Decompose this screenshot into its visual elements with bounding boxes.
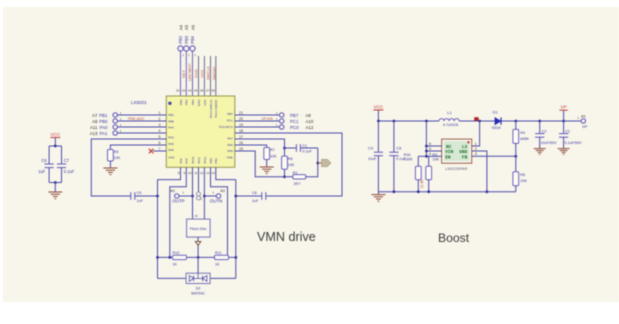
- wire U1 pin 9 down-left to R10 row: [170, 167, 187, 257]
- svg-text:22: 22: [176, 89, 180, 93]
- net label LED NEXT: [188, 62, 192, 81]
- connector pin PB4 (A6): [190, 24, 196, 57]
- svg-text:A5: A5: [184, 24, 189, 30]
- ground below boost rail: [371, 192, 385, 202]
- wire U1 pin 15 to R1: [235, 151, 293, 177]
- svg-text:PA11: PA11: [197, 157, 201, 164]
- svg-text:SS34: SS34: [492, 126, 501, 130]
- svg-text:R5: R5: [520, 173, 525, 177]
- svg-text:12.4K: 12.4K: [420, 179, 424, 189]
- wire VCC stub to U1 pin 26: [203, 56, 205, 96]
- svg-text:R8: R8: [288, 157, 293, 161]
- net label SWDIO: [211, 67, 216, 80]
- wire D2 common cathode up: [197, 257, 199, 273]
- connector pin PA1 (A13): [90, 129, 122, 136]
- U1 top pin numbers 22-28: [176, 89, 215, 93]
- svg-text:VP: VP: [561, 105, 567, 110]
- wire U1 pin 10 to OUTP node and piezo: [191, 167, 194, 219]
- svg-text:A8: A8: [306, 113, 312, 118]
- svg-text:C1: C1: [302, 144, 307, 148]
- svg-text:1K: 1K: [173, 262, 178, 266]
- svg-text:VCC: VCC: [374, 104, 384, 109]
- svg-text:OUTN: OUTN: [210, 199, 223, 204]
- power port triangle on piezo bottom wire: [195, 242, 201, 246]
- svg-text:PA10: PA10: [191, 156, 195, 163]
- svg-text:A11: A11: [90, 125, 98, 130]
- wire U1 pin 6 to R6: [110, 145, 166, 150]
- svg-text:GND: GND: [197, 99, 201, 107]
- svg-text:C2: C2: [565, 130, 570, 134]
- svg-text:Boost: Boost: [438, 231, 470, 245]
- U1 bottom pin numbers 8-14: [178, 171, 215, 175]
- svg-text:PA6: PA6: [227, 143, 233, 147]
- svg-text:LX8201: LX8201: [131, 100, 147, 105]
- wire U1 pin 18 to C8 loop: [235, 133, 342, 196]
- wire U1 pin 17 to node A: [235, 139, 286, 149]
- svg-text:A2: A2: [170, 189, 175, 193]
- wire R16 R9 top join: [418, 155, 428, 166]
- svg-text:17: 17: [239, 135, 243, 139]
- capacitor C3 10uF/50V: [535, 121, 557, 149]
- svg-text:5: 5: [429, 147, 431, 151]
- svg-text:PA13-SWDIO: PA13-SWDIO: [214, 99, 218, 118]
- ground below C3: [534, 149, 546, 155]
- resistor R9 10K: [426, 153, 440, 192]
- wire U1 pin 12 to OUTN node and piezo: [203, 167, 206, 219]
- svg-text:10: 10: [188, 171, 192, 175]
- svg-text:PB7: PB7: [290, 113, 299, 118]
- svg-text:5: 5: [159, 135, 161, 139]
- resistor R6 10K: [108, 150, 121, 168]
- wire U1 pin 19 to PC0: [235, 126, 280, 128]
- svg-text:26: 26: [200, 89, 204, 93]
- ground below C2: [558, 149, 570, 155]
- U2 pin numbers: [429, 142, 477, 156]
- resistor R4 845K: [513, 121, 530, 156]
- svg-text:OUTP: OUTP: [172, 199, 185, 204]
- svg-text:PB1: PB1: [168, 113, 174, 117]
- svg-text:EN: EN: [445, 154, 451, 160]
- inductor L1 4.7uH/2A: [439, 110, 459, 127]
- svg-text:C4: C4: [368, 146, 374, 151]
- wire right rail of piezo block: [234, 180, 237, 279]
- svg-text:8: 8: [178, 171, 180, 175]
- svg-text:1: 1: [475, 142, 477, 146]
- svg-text:20K: 20K: [520, 179, 527, 183]
- svg-text:VMN drive: VMN drive: [257, 230, 316, 244]
- svg-text:VIN: VIN: [445, 149, 453, 155]
- svg-text:24: 24: [188, 89, 192, 93]
- svg-text:Piezo Disc: Piezo Disc: [190, 227, 207, 231]
- svg-text:PC1: PC1: [227, 118, 233, 122]
- svg-text:15: 15: [239, 147, 243, 151]
- svg-text:6: 6: [159, 141, 161, 145]
- svg-text:VCC: VCC: [50, 132, 60, 137]
- svg-text:25: 25: [194, 89, 198, 93]
- svg-text:PB2: PB2: [178, 35, 183, 44]
- svg-text:10K: 10K: [270, 155, 277, 159]
- svg-text:11: 11: [194, 171, 197, 175]
- svg-text:PRE-ADC: PRE-ADC: [128, 117, 145, 121]
- svg-text:VP-EN: VP-EN: [262, 117, 274, 121]
- svg-text:1uF: 1uF: [252, 199, 259, 203]
- svg-text:A4: A4: [178, 24, 183, 30]
- svg-text:SWDIO: SWDIO: [211, 67, 216, 80]
- svg-text:19: 19: [239, 123, 243, 127]
- wire PB3 to U1 pin 23: [185, 51, 187, 96]
- wire right rail to D2 anode 2: [210, 277, 236, 279]
- connector pin PA0 (A11): [90, 123, 122, 130]
- dual diode D2 BAT54C: [186, 273, 210, 295]
- svg-text:6: 6: [429, 142, 431, 146]
- svg-text:PB3: PB3: [214, 158, 218, 164]
- output port arrow VMN: [318, 159, 331, 166]
- capacitor C2 0.1uF/50V: [559, 121, 582, 149]
- wire PB1 to U1 pin 1: [117, 114, 166, 116]
- U2 designator LN2220PAR: [445, 166, 467, 171]
- svg-text:R11: R11: [215, 251, 222, 255]
- svg-text:PB3: PB3: [185, 99, 189, 105]
- svg-text:10K: 10K: [288, 163, 295, 167]
- svg-text:0.1uF: 0.1uF: [396, 157, 406, 161]
- svg-text:PA5: PA5: [227, 149, 233, 153]
- svg-text:PC0: PC0: [290, 125, 299, 130]
- no-ERC cross on U1 pin 7: [149, 149, 167, 154]
- wire GND stub to U1 pin 25: [198, 56, 200, 96]
- piezo disc transducer J3: [187, 214, 211, 237]
- wire PA0 to U1 pin 3: [117, 126, 166, 128]
- wire R1 to C1 node: [306, 148, 319, 177]
- svg-text:VDE: VDE: [227, 155, 233, 159]
- resistor R8 10K: [282, 148, 295, 178]
- capacitor C4 10uF: [368, 121, 383, 192]
- svg-text:PA7: PA7: [227, 137, 233, 141]
- wire PB4 to U1 pin 24: [192, 51, 194, 96]
- connector pin A1 VP output: [577, 113, 587, 128]
- svg-text:12: 12: [200, 171, 204, 175]
- capacitor C6 1uF: [38, 158, 54, 174]
- svg-text:PC0-MCO: PC0-MCO: [219, 125, 234, 129]
- svg-text:A12: A12: [306, 125, 314, 130]
- resistor R11 1K: [215, 251, 229, 266]
- svg-text:VDD: VDD: [203, 99, 207, 106]
- wire U1 pin 5 to C9: [91, 139, 166, 196]
- svg-text:J2: J2: [199, 197, 203, 201]
- svg-text:PB0: PB0: [99, 119, 108, 124]
- wire U1 pin 13 down-right to R11 row: [211, 167, 228, 257]
- MCU U1 LX8201 body: [166, 96, 235, 167]
- connector pin PB0 (A9): [92, 117, 122, 124]
- resistor R7 10K: [264, 148, 277, 167]
- svg-text:1K: 1K: [215, 262, 220, 266]
- svg-text:1uF: 1uF: [137, 199, 144, 203]
- net label GND: [193, 69, 198, 78]
- wire VCC split to C6 C7: [49, 145, 61, 164]
- error marker red square at L1 output: [474, 117, 478, 121]
- svg-text:2R7: 2R7: [294, 182, 301, 186]
- svg-text:0.1uF/50V: 0.1uF/50V: [565, 141, 583, 145]
- net label SWCLK: [205, 66, 210, 80]
- svg-text:PB4: PB4: [191, 99, 195, 105]
- svg-text:PA6: PA6: [168, 148, 174, 152]
- svg-text:PA0: PA0: [100, 125, 109, 130]
- svg-text:VP: VP: [582, 124, 588, 129]
- svg-text:9: 9: [184, 171, 186, 175]
- wire SWCLK stub to U1 pin 27: [210, 56, 212, 96]
- connector pin PB7 (A8): [276, 111, 312, 118]
- capacitor C7 0.1uF: [57, 158, 75, 174]
- svg-text:LN2220PAR: LN2220PAR: [445, 166, 467, 171]
- power port VCC (left): [50, 132, 61, 146]
- wire U2 FB pin 3 to divider: [472, 155, 517, 158]
- svg-text:10uF: 10uF: [368, 157, 377, 161]
- boost IC U2 LN2220PAR body: [442, 139, 472, 163]
- wire U1 pin 16 to R7: [235, 145, 267, 148]
- resistor R10 1K: [173, 251, 187, 266]
- svg-text:1uF: 1uF: [38, 169, 46, 174]
- wire SWDIO stub to U1 pin 28: [215, 56, 217, 96]
- capacitor C8 1uF: [236, 191, 266, 203]
- svg-text:PA9: PA9: [185, 158, 189, 164]
- ground below R6: [103, 168, 117, 175]
- svg-text:PA4: PA4: [168, 126, 174, 130]
- resistor R1 2R7: [293, 171, 306, 186]
- capacitor C9 1uF: [131, 191, 158, 203]
- svg-text:PA8: PA8: [179, 158, 183, 164]
- svg-text:BAT54C: BAT54C: [191, 292, 205, 296]
- svg-text:VSS: VSS: [168, 155, 174, 159]
- wire boost top rail: [377, 120, 581, 123]
- svg-text:LED NEXT: LED NEXT: [188, 62, 192, 81]
- capacitor C5 0.1uF: [389, 121, 406, 192]
- svg-text:7: 7: [159, 147, 161, 151]
- svg-text:PB3: PB3: [184, 35, 189, 44]
- svg-text:C9: C9: [137, 191, 142, 195]
- wire VIN riser and pin stubs: [425, 121, 442, 156]
- svg-text:R7: R7: [270, 148, 275, 152]
- svg-text:FB: FB: [462, 154, 468, 160]
- svg-text:L1: L1: [447, 110, 452, 115]
- section title VMN drive: [257, 230, 316, 244]
- resistor R16 100R: [404, 153, 421, 192]
- svg-text:1: 1: [159, 111, 161, 115]
- wire U1 pin 21 to PB7: [235, 114, 280, 116]
- svg-text:13: 13: [206, 171, 210, 175]
- wire PA1 to U1 pin 4: [117, 132, 166, 134]
- wire C6 C7 join to ground: [49, 168, 61, 192]
- svg-text:16: 16: [239, 141, 243, 145]
- svg-text:R6: R6: [114, 150, 119, 154]
- svg-text:PA12: PA12: [203, 156, 207, 163]
- jumper J2 on pin 11 wire: [197, 167, 203, 200]
- svg-text:A3: A3: [220, 189, 225, 193]
- note 12.4K rotated: [420, 179, 424, 189]
- net label VCC: [199, 69, 204, 78]
- svg-text:0.1uF: 0.1uF: [302, 150, 312, 154]
- power port VP: [559, 105, 567, 121]
- svg-text:PB7: PB7: [227, 112, 233, 116]
- svg-text:10K: 10K: [114, 156, 121, 160]
- svg-text:R10: R10: [173, 251, 180, 255]
- U1 designator LX8201: [131, 100, 147, 105]
- svg-text:PB5: PB5: [209, 158, 213, 164]
- svg-text:SWCLK: SWCLK: [205, 66, 210, 80]
- svg-text:D1: D1: [493, 110, 499, 115]
- svg-text:4: 4: [429, 152, 431, 156]
- svg-text:18: 18: [239, 129, 243, 133]
- svg-text:PA5: PA5: [168, 142, 174, 146]
- svg-text:R9: R9: [432, 153, 437, 157]
- U1 right pin numbers 21-15: [239, 111, 243, 151]
- svg-text:KEY: KEY: [181, 70, 186, 78]
- svg-text:4.7uH/2A: 4.7uH/2A: [443, 123, 459, 127]
- svg-text:0.1uF: 0.1uF: [64, 169, 75, 174]
- resistor R5 20K: [513, 156, 528, 191]
- wire PB2 to U1 pin 22: [180, 51, 182, 96]
- svg-text:R4: R4: [520, 131, 525, 135]
- svg-text:C3: C3: [542, 130, 547, 134]
- svg-text:J3: J3: [194, 214, 198, 218]
- svg-text:21: 21: [239, 111, 243, 115]
- U1 left pin numbers 1-7: [159, 111, 161, 151]
- svg-text:PB1: PB1: [99, 113, 108, 118]
- svg-text:10uF/50V: 10uF/50V: [541, 141, 558, 145]
- svg-text:20: 20: [239, 117, 243, 121]
- svg-text:LX: LX: [462, 144, 468, 150]
- wire left rail to D2 anode 1: [158, 277, 187, 279]
- svg-text:C8: C8: [252, 191, 257, 195]
- capacitor C1 0.1uF: [285, 144, 318, 154]
- wire U1 pin 8 down-left: [158, 167, 181, 179]
- connector pin PC0 (A12): [276, 123, 314, 130]
- connector pin OUTP (A2): [170, 189, 192, 203]
- svg-text:A9: A9: [92, 119, 98, 124]
- svg-text:PA1: PA1: [100, 131, 109, 136]
- wire boost bottom rail: [378, 190, 515, 193]
- svg-text:GND: GND: [459, 149, 467, 155]
- svg-text:28: 28: [211, 89, 215, 93]
- svg-text:R1: R1: [293, 171, 298, 175]
- connector pin PB1 (A7): [92, 111, 122, 118]
- svg-text:A13: A13: [90, 131, 98, 136]
- svg-text:PA3: PA3: [168, 136, 174, 140]
- wire PB0 to U1 pin 2: [117, 120, 166, 122]
- svg-text:C6: C6: [41, 158, 47, 163]
- net label VP-EN: [262, 117, 274, 121]
- svg-text:PB2: PB2: [179, 99, 183, 105]
- svg-text:27: 27: [206, 89, 210, 93]
- svg-text:C5: C5: [396, 146, 402, 151]
- svg-text:C7: C7: [64, 158, 70, 163]
- svg-text:PB6: PB6: [168, 119, 174, 123]
- svg-text:A10: A10: [306, 119, 314, 124]
- svg-text:PC1: PC1: [290, 119, 299, 124]
- svg-text:3: 3: [475, 152, 477, 156]
- svg-text:14: 14: [211, 171, 215, 175]
- svg-text:PB4: PB4: [190, 35, 195, 44]
- connector pin PB2 (A4): [178, 24, 184, 57]
- wire piezo bottom pin: [197, 237, 200, 259]
- svg-text:A7: A7: [92, 113, 98, 118]
- ground below C6 C7: [48, 192, 62, 199]
- svg-text:2: 2: [475, 147, 477, 151]
- wire R10 R11 row: [158, 256, 236, 259]
- wire left rail of piezo block: [156, 180, 159, 279]
- ground below R7: [260, 167, 274, 174]
- net label PRE-ADC: [128, 117, 145, 121]
- wire U2 GND pin 2 down: [472, 151, 487, 192]
- net label KEY: [181, 70, 186, 78]
- svg-text:GND: GND: [193, 69, 198, 78]
- svg-text:10K: 10K: [432, 158, 439, 162]
- svg-text:845K: 845K: [520, 137, 529, 141]
- svg-text:3: 3: [159, 123, 161, 127]
- svg-text:A1: A1: [581, 113, 587, 118]
- connector pin PB3 (A5): [184, 24, 190, 57]
- svg-text:23: 23: [182, 89, 186, 93]
- svg-text:PA14-SWCLK: PA14-SWCLK: [209, 100, 213, 119]
- svg-text:VCC: VCC: [199, 69, 204, 78]
- diode D1 SS34: [492, 110, 501, 130]
- wire U1 pin 20 to PC1: [235, 120, 280, 122]
- section title Boost: [438, 231, 470, 245]
- connector pin OUTN (A3): [204, 189, 224, 203]
- wire U1 pin 14 down-right: [216, 167, 236, 179]
- power port VCC (boost): [373, 104, 384, 121]
- svg-text:D2: D2: [196, 286, 201, 290]
- svg-text:4: 4: [159, 129, 161, 133]
- wire LX riser to rail: [472, 121, 480, 146]
- svg-text:2: 2: [159, 117, 161, 121]
- svg-text:NC: NC: [446, 144, 452, 150]
- svg-text:A6: A6: [190, 24, 195, 30]
- connector pin PC1 (A10): [276, 117, 314, 124]
